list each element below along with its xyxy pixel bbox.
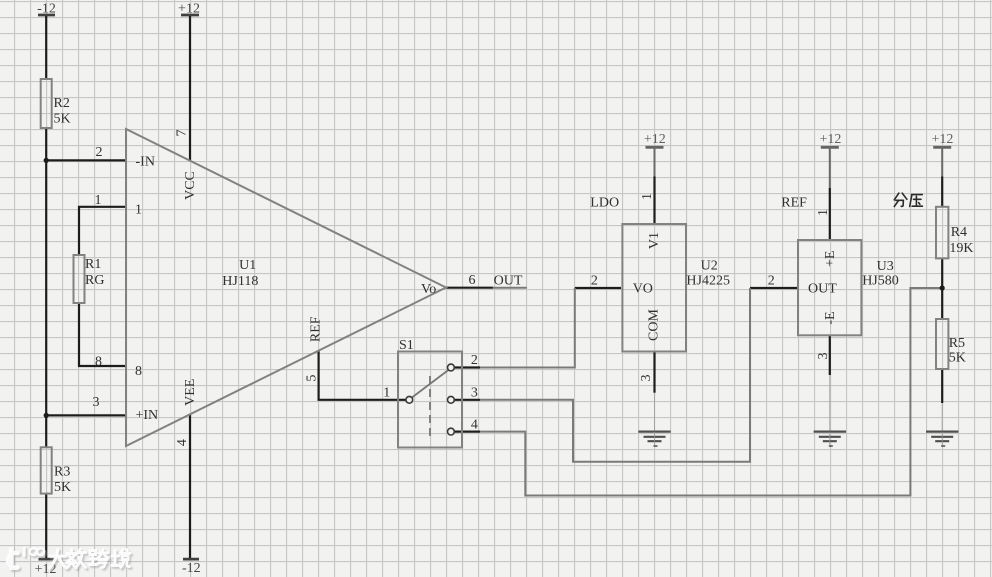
svg-text:-12: -12	[182, 561, 201, 576]
svg-text:5K: 5K	[54, 112, 71, 127]
svg-text:RG: RG	[85, 273, 104, 288]
svg-text:U1: U1	[239, 258, 256, 273]
svg-text:HJ118: HJ118	[222, 274, 258, 289]
svg-text:OUT: OUT	[494, 274, 523, 289]
svg-text:Vo: Vo	[421, 282, 436, 297]
svg-text:+12: +12	[178, 2, 200, 17]
svg-text:HJ580: HJ580	[862, 274, 899, 289]
svg-text:7: 7	[175, 130, 190, 137]
svg-text:HJ4225: HJ4225	[686, 273, 730, 288]
svg-text:LDO: LDO	[590, 196, 619, 211]
svg-text:1: 1	[95, 193, 102, 208]
svg-text:5: 5	[305, 375, 320, 382]
svg-text:U2: U2	[701, 259, 718, 274]
svg-text:VEE: VEE	[183, 379, 198, 406]
svg-text:5K: 5K	[54, 480, 71, 495]
svg-text:R1: R1	[85, 257, 101, 272]
svg-text:VO: VO	[633, 282, 653, 297]
svg-text:+E: +E	[823, 251, 838, 267]
svg-text:19K: 19K	[949, 241, 973, 256]
svg-text:R2: R2	[54, 96, 70, 111]
svg-text:3: 3	[471, 385, 478, 400]
svg-text:-E: -E	[823, 311, 838, 324]
svg-text:2: 2	[768, 274, 775, 289]
svg-text:-IN: -IN	[136, 155, 155, 170]
svg-text:R4: R4	[951, 225, 967, 240]
svg-text:R3: R3	[54, 465, 70, 480]
svg-text:6: 6	[469, 273, 476, 288]
svg-text:COM: COM	[647, 309, 662, 341]
svg-text:+12: +12	[819, 132, 841, 147]
svg-text:3: 3	[93, 395, 100, 410]
svg-text:+IN: +IN	[136, 408, 159, 423]
svg-text:S1: S1	[399, 338, 414, 353]
svg-text:4: 4	[471, 417, 478, 432]
svg-text:V1: V1	[647, 232, 662, 249]
svg-text:3: 3	[639, 375, 654, 382]
svg-text:4: 4	[175, 439, 190, 446]
svg-text:1: 1	[816, 209, 831, 216]
svg-text:VCC: VCC	[183, 171, 198, 200]
svg-text:1: 1	[135, 203, 142, 218]
svg-text:REF: REF	[781, 196, 807, 211]
svg-text:8: 8	[135, 364, 142, 379]
svg-text:REF: REF	[309, 316, 324, 342]
svg-text:8: 8	[95, 355, 102, 370]
svg-text:2: 2	[591, 274, 598, 289]
svg-text:OUT: OUT	[808, 282, 837, 297]
svg-text:-12: -12	[37, 2, 56, 17]
svg-text:5K: 5K	[949, 351, 966, 366]
svg-text:+12: +12	[931, 132, 953, 147]
svg-text:2: 2	[96, 145, 103, 160]
svg-text:1: 1	[383, 385, 390, 400]
svg-text:+12: +12	[644, 132, 666, 147]
svg-text:U3: U3	[877, 259, 894, 274]
svg-text:2: 2	[471, 353, 478, 368]
svg-text:R5: R5	[949, 336, 965, 351]
svg-text:1: 1	[640, 193, 655, 200]
svg-text:3: 3	[816, 353, 831, 360]
